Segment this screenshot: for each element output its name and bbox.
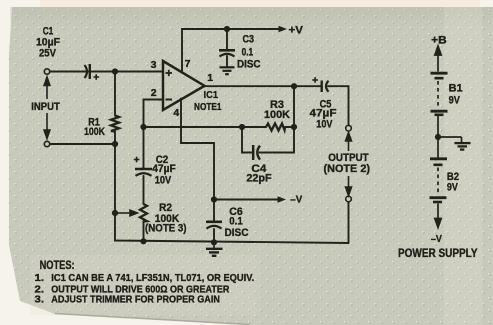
svg-text:0.1: 0.1 — [229, 216, 243, 228]
svg-text:100K: 100K — [84, 126, 105, 138]
wire -V node to C6 — [213, 200, 215, 222]
svg-text:B1: B1 — [449, 82, 463, 94]
wire left ground rail — [115, 144, 349, 243]
wire C3 top lead — [226, 29, 228, 50]
input terminal top — [44, 69, 49, 74]
wire C5 to output terminal — [328, 86, 349, 125]
svg-text:INPUT: INPUT — [31, 101, 60, 113]
wire R1 bottom lead — [114, 132, 116, 145]
svg-text:NOTES:: NOTES: — [40, 260, 75, 272]
svg-text:4: 4 — [173, 107, 179, 119]
svg-text:NOTE1: NOTE1 — [194, 101, 222, 113]
ground C3 — [220, 67, 235, 74]
svg-text:DISC: DISC — [237, 59, 261, 71]
svg-text:ADJUST TRIMMER FOR PROPER GAIN: ADJUST TRIMMER FOR PROPER GAIN — [51, 294, 220, 306]
node battery mid junction — [435, 134, 441, 140]
capacitor C2 — [135, 169, 152, 176]
node C3 tap junction — [224, 26, 230, 32]
svg-text:3: 3 — [151, 59, 157, 71]
svg-text:2: 2 — [151, 87, 157, 99]
node wiper junction — [112, 210, 118, 216]
svg-text:22pF: 22pF — [246, 172, 272, 184]
wire feedback node to R3 — [144, 126, 267, 128]
capacitor C3 — [219, 50, 235, 56]
input arrow up — [44, 77, 50, 139]
label -V mid — [278, 196, 287, 202]
polarity + C1 — [94, 74, 100, 80]
svg-text:100K: 100K — [264, 109, 290, 121]
capacitor C6 — [206, 222, 222, 229]
polarity + C2 — [134, 157, 140, 163]
wire C2 to R2 — [143, 176, 145, 204]
wire pin3 input — [50, 71, 164, 73]
wire output lower to rail — [348, 202, 350, 243]
wire R1 top lead — [114, 72, 116, 116]
node R3 left junction — [239, 124, 245, 130]
capacitor C4 — [253, 145, 260, 160]
svg-text:10V: 10V — [155, 175, 172, 187]
node input-top junction — [112, 68, 118, 74]
wire C6 to ground rail — [213, 229, 215, 242]
-V arrow down — [435, 204, 441, 228]
wire R3 right lead — [285, 126, 294, 128]
node input-bottom junction — [112, 141, 118, 147]
svg-text:1.: 1. — [35, 272, 45, 284]
op-amp plus mark — [166, 70, 173, 76]
svg-text:DISC: DISC — [225, 227, 249, 239]
svg-text:9V: 9V — [447, 181, 459, 193]
wire pin2 feedback — [144, 100, 164, 128]
wire R2 bottom lead — [143, 221, 145, 241]
ground battery — [438, 137, 471, 150]
wire C3 bottom lead — [226, 56, 228, 67]
node -V junction — [211, 196, 217, 202]
resistor R3 — [266, 124, 285, 131]
node feedback junction — [140, 124, 146, 130]
svg-text:10V: 10V — [316, 119, 333, 131]
op-amp U1 triangle — [163, 61, 205, 110]
resistor R1 — [111, 116, 119, 132]
svg-text:0.1: 0.1 — [242, 47, 254, 59]
svg-text:IC1 CAN BE A 741, LF351N, TL07: IC1 CAN BE A 741, LF351N, TL071, OR EQUI… — [51, 272, 254, 284]
output terminal top — [346, 125, 352, 131]
svg-text:–V: –V — [290, 194, 302, 206]
svg-text:(NOTE 3): (NOTE 3) — [145, 223, 187, 235]
node R2 rail junction — [140, 238, 146, 244]
capacitor C5 — [322, 81, 329, 93]
node C6 rail junction — [211, 239, 217, 245]
polarity + C5 — [312, 77, 318, 83]
+B arrow up — [435, 46, 441, 72]
svg-text:C3: C3 — [243, 34, 255, 46]
wire input bottom — [50, 143, 116, 145]
ground C6 — [206, 242, 223, 256]
wire output pin1 — [205, 85, 322, 87]
output arrow up — [346, 133, 352, 152]
battery B2 — [430, 137, 448, 202]
svg-text:(NOTE 2): (NOTE 2) — [324, 163, 371, 175]
input terminal bottom — [44, 141, 49, 146]
trimmer wiper arrow — [115, 210, 137, 216]
svg-text:+B: +B — [431, 35, 447, 47]
wire C2 top lead — [143, 127, 145, 168]
svg-text:IC1: IC1 — [204, 89, 219, 101]
wire C4 loop left — [242, 127, 253, 153]
svg-text:1: 1 — [207, 72, 213, 84]
wire +V rail — [182, 29, 279, 73]
wire C4 loop right — [260, 127, 294, 153]
label +V — [279, 26, 288, 33]
battery B1 — [431, 73, 448, 137]
svg-text:25V: 25V — [39, 48, 57, 60]
node output junction — [291, 83, 297, 89]
svg-text:3.: 3. — [35, 294, 45, 306]
node R3 right junction — [291, 124, 297, 130]
op-amp minus mark — [166, 99, 173, 101]
svg-text:47µF: 47µF — [152, 163, 176, 175]
wire -V arrow line — [214, 199, 278, 201]
output terminal bottom — [346, 196, 352, 202]
svg-text:–V: –V — [431, 233, 442, 245]
svg-text:9V: 9V — [449, 94, 461, 106]
svg-text:7: 7 — [185, 58, 191, 70]
wire pin4 to -V node — [181, 99, 214, 200]
svg-text:+V: +V — [289, 25, 304, 37]
capacitor C1 — [85, 64, 90, 79]
trimmer R2 — [140, 204, 147, 222]
output arrow down — [346, 176, 352, 196]
wire output node down — [293, 86, 295, 127]
svg-text:POWER SUPPLY: POWER SUPPLY — [398, 248, 478, 260]
